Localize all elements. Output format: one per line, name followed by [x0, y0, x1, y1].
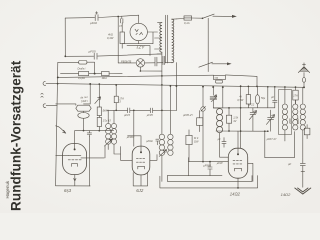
IF transformer 2 winding a	[159, 134, 164, 139]
transformer T1 secondary winding	[160, 23, 162, 53]
AZ1 internals	[135, 29, 143, 35]
wire dial lamp line	[118, 62, 172, 64]
svg-text:0,4W: 0,4W	[107, 36, 114, 40]
resistor box R3	[102, 72, 110, 76]
voltage selector box TH133	[214, 75, 226, 79]
wire bottom loop line	[65, 54, 161, 56]
wire tube top feed	[138, 15, 140, 23]
ground chevron	[295, 188, 311, 194]
wire mid line y131	[216, 130, 268, 132]
trimmer circle on drop	[201, 107, 205, 111]
wire R7 leads	[188, 130, 190, 162]
wire long drop x203	[202, 87, 204, 162]
svg-text:µF: µF	[218, 138, 221, 141]
svg-text:µF: µF	[271, 96, 274, 99]
wire tuning arrow	[56, 126, 66, 133]
tube V3 right lead	[248, 163, 253, 181]
svg-text:µFW: µFW	[217, 161, 223, 165]
tube V3 envelope	[228, 148, 247, 178]
wire right top line	[253, 107, 275, 109]
wire second drop	[222, 87, 224, 108]
capacitor to ground right	[300, 163, 305, 187]
AC squiggle marks	[41, 94, 43, 98]
node lamp return	[140, 70, 142, 72]
inner return line	[167, 176, 252, 182]
node top line junctions	[228, 107, 230, 109]
resistor box R2	[79, 72, 89, 76]
node top line x118	[117, 16, 119, 18]
antenna cross	[303, 63, 306, 66]
output coil Lb	[293, 104, 298, 109]
svg-text:Rundfunk-Vorsatzgerät: Rundfunk-Vorsatzgerät	[9, 60, 24, 211]
decoupling line	[167, 158, 222, 176]
tube V2 envelope	[132, 146, 150, 175]
wire V1 cathode return	[56, 185, 91, 187]
wire fuse to switch	[192, 17, 203, 19]
svg-text:▪▪▪: ▪▪▪	[215, 76, 219, 80]
capacitor beside IF2	[156, 139, 159, 145]
node grid junctions	[83, 130, 85, 132]
svg-text:0,1A: 0,1A	[184, 21, 190, 25]
svg-text:µF05: µF05	[89, 50, 96, 54]
node selector bus junction	[256, 86, 258, 88]
wire R8 leads	[228, 108, 230, 131]
svg-text:µF: µF	[288, 162, 292, 166]
svg-text:ΩW: ΩW	[194, 139, 199, 143]
selector box 2	[216, 80, 223, 83]
tube V2 side leads	[121, 147, 158, 161]
svg-text:0,1µΩ: 0,1µΩ	[78, 76, 85, 80]
resistor R8	[226, 115, 231, 123]
node R9 top	[248, 86, 250, 88]
terminal input 2	[43, 104, 46, 108]
svg-text:4V: 4V	[233, 119, 236, 123]
node antenna bus	[303, 86, 305, 88]
tube V1 envelope	[63, 144, 87, 175]
tube V1 top lead	[74, 131, 76, 149]
node second drop	[222, 86, 224, 88]
tube V1 left lead	[56, 154, 69, 156]
wire R9 leads	[247, 86, 249, 107]
node R6 top	[115, 84, 117, 86]
wire vertical from bus to grid feed	[89, 84, 91, 104]
svg-text:µF15: µF15	[124, 113, 131, 117]
IF transformer 2 winding b	[168, 134, 173, 139]
svg-text:17µ 4J: 17µ 4J	[103, 119, 112, 123]
svg-text:PE06/7B: PE06/7B	[121, 60, 132, 64]
trimmer arrow IF2	[159, 150, 166, 157]
antenna symbol	[298, 67, 309, 73]
svg-text:2800: 2800	[289, 118, 292, 125]
tube V3 bottom lead	[237, 178, 239, 188]
IF transformer 1 winding b	[111, 123, 116, 128]
wire grid-cap column	[98, 84, 100, 131]
node CV2 bottom	[267, 130, 269, 132]
coil ellipse under hexagon	[78, 113, 89, 119]
capacitor pair on lamp line	[155, 56, 165, 66]
svg-text:µF0el: µF0el	[146, 139, 153, 143]
wire CV1 bottom	[252, 119, 254, 131]
variable capacitor CV2	[266, 110, 274, 131]
wire R6 leads	[115, 85, 117, 110]
svg-text:17A: 17A	[293, 94, 298, 97]
antenna connector	[302, 78, 305, 83]
tube V1 bottom lead	[74, 175, 76, 186]
svg-text:µF960: µF960	[203, 163, 211, 167]
wire mains arrow 2	[212, 63, 229, 65]
tube V2 grid dashes	[136, 158, 144, 162]
node drop joins return	[202, 161, 204, 163]
svg-text:µF22: µF22	[248, 103, 255, 107]
potentiometer P1	[210, 97, 216, 99]
wire resistor R1 leg	[121, 23, 123, 48]
wire lamp bottom return	[140, 67, 162, 71]
wire pot feed	[213, 87, 219, 109]
wire top loop line	[65, 15, 139, 18]
capacitor C2 in bottom line	[94, 53, 97, 59]
IF transformer 1 winding a	[106, 123, 111, 128]
bus P	[58, 75, 214, 77]
trimmer arrow IF1	[105, 139, 113, 146]
tube V2 bottom lead and box	[133, 173, 147, 186]
capacitor small near grid	[87, 131, 91, 137]
wire R10 leads	[295, 87, 297, 104]
svg-text:µF07-4Y: µF07-4Y	[267, 137, 277, 141]
resistor R7	[186, 135, 192, 144]
mini capacitor under top line	[121, 16, 123, 23]
tube V1 grid dashes	[68, 159, 81, 161]
switch S1a lever	[203, 14, 215, 18]
wire cap column to cathode return	[88, 137, 90, 186]
capacitor box C3	[79, 61, 87, 65]
node V1 grid cap	[74, 148, 76, 150]
wire AZ1 lower second line	[127, 46, 150, 56]
rectifier tube AZ1	[130, 23, 147, 40]
wire trimmer leads	[199, 111, 201, 132]
svg-text:Dfall s: Dfall s	[81, 99, 89, 104]
node R column top	[98, 83, 100, 85]
wire cap to ground mid	[189, 162, 229, 176]
wire local top line	[213, 86, 253, 148]
tube V1 cathode	[72, 164, 78, 167]
svg-text:µF05-2Y: µF05-2Y	[183, 113, 193, 117]
wire note arrow	[95, 97, 101, 104]
capacitor small x275	[273, 87, 277, 108]
fuse F1	[184, 16, 192, 20]
node bus P rail	[57, 76, 59, 78]
wire grid hexagon feed	[56, 104, 90, 105]
electrolytic C oval	[255, 95, 259, 104]
svg-text:Dralls t: Dralls t	[78, 66, 86, 70]
wire B+ line	[107, 109, 176, 111]
output coil Lc	[300, 104, 305, 109]
tube V1 right lead	[81, 157, 104, 159]
node busQ x203	[202, 86, 204, 88]
resistor R6 vertical	[114, 96, 118, 103]
small box right edge	[304, 128, 310, 135]
node return joins mid line	[264, 130, 266, 132]
wire grid line H5	[75, 130, 114, 132]
transformer T1 core	[166, 15, 168, 63]
wire left leg of PSU loop	[64, 18, 66, 56]
node switch pivot	[202, 17, 204, 19]
svg-text:AZ1: AZ1	[136, 45, 146, 50]
node bus Q rail crossing	[57, 83, 59, 85]
tube V3 grid dashes	[233, 160, 242, 164]
switch S1b lever	[199, 62, 213, 67]
output coil La	[282, 104, 287, 109]
svg-text:µF05: µF05	[147, 113, 154, 117]
wire mains arrow 1	[213, 15, 234, 17]
terminal input 1	[43, 82, 46, 86]
capacitor pair left of V3	[222, 138, 226, 148]
bus Q ground bus	[46, 83, 304, 87]
node B+ junctions	[115, 109, 117, 111]
variable capacitor CV1	[249, 108, 256, 120]
wire L1 bottom	[220, 133, 229, 158]
svg-text:14Ω2: 14Ω2	[230, 192, 241, 197]
node x275 top	[274, 86, 276, 88]
capacitor series 2	[150, 108, 152, 113]
wire transformer taps	[155, 19, 177, 54]
antenna stem	[303, 73, 305, 88]
input rail	[56, 62, 58, 185]
wire ellipse stubs	[83, 111, 85, 130]
wire long vertical to lamp line	[117, 16, 119, 63]
node IF2 feeds on buses	[161, 75, 163, 77]
node H3 junction	[94, 73, 96, 75]
wire IF2 vertical feeds	[162, 52, 177, 134]
resistor R10	[293, 90, 298, 100]
wire mains vertical drop	[207, 18, 209, 71]
wire H3 resistor row	[61, 72, 123, 74]
oscillator coil L1	[217, 109, 223, 133]
hexagon label Dfall2	[76, 105, 91, 111]
wire elco leads	[257, 87, 259, 108]
node PSU bottom-left	[64, 55, 66, 57]
outer return line	[160, 176, 258, 188]
wire selector to bus	[225, 75, 257, 87]
tick on ground lead	[301, 170, 305, 172]
resistor R5	[97, 117, 101, 126]
node V3 grid cap	[237, 153, 239, 155]
svg-text:Dfec: Dfec	[102, 76, 108, 80]
node R10 top	[295, 86, 297, 88]
tube V3 cathode	[235, 168, 242, 171]
resistor R9	[246, 95, 250, 104]
tube V3 top lead	[237, 131, 239, 154]
transformer T1 primary winding	[172, 19, 174, 63]
node mid	[209, 161, 211, 163]
svg-text:6J2: 6J2	[136, 188, 144, 193]
svg-text:50µ: 50µ	[261, 97, 266, 100]
wire IF2 bottom lead	[161, 156, 163, 182]
svg-text:6ș3: 6ș3	[64, 188, 72, 193]
node V3 bottom	[237, 187, 239, 189]
wire H1 to cap box	[58, 62, 95, 73]
wire mid vertical	[133, 110, 135, 146]
node V2 grid cap	[140, 151, 142, 153]
node coil top	[284, 86, 286, 88]
wire terminal 2 to rail	[46, 105, 57, 107]
capacitor series 1	[128, 108, 130, 113]
wire x267 vertical	[267, 87, 269, 108]
dial lamp La	[136, 59, 144, 67]
capacitor C1 in top line	[95, 12, 98, 21]
tube V2 top lead	[128, 136, 141, 152]
wire coil leads	[265, 87, 303, 163]
shield box	[279, 90, 292, 135]
svg-text:0,5W: 0,5W	[237, 99, 243, 102]
tube V2 cathode	[138, 166, 145, 169]
svg-text:14Ω2: 14Ω2	[281, 192, 291, 197]
node busQ x213	[212, 86, 214, 88]
wire IF1 leads	[105, 110, 121, 158]
resistor R1	[120, 32, 124, 44]
node mid line junctions	[228, 130, 230, 132]
wire fuse feed	[176, 18, 183, 20]
svg-text:2800: 2800	[297, 118, 300, 125]
node bus Q at x90	[89, 83, 91, 85]
svg-text:µF02: µF02	[90, 21, 97, 25]
trimmer box	[197, 118, 203, 126]
tube V1 plate	[68, 154, 81, 156]
resistor R4	[97, 107, 101, 116]
wire AZ1 bottom connections	[122, 32, 157, 44]
